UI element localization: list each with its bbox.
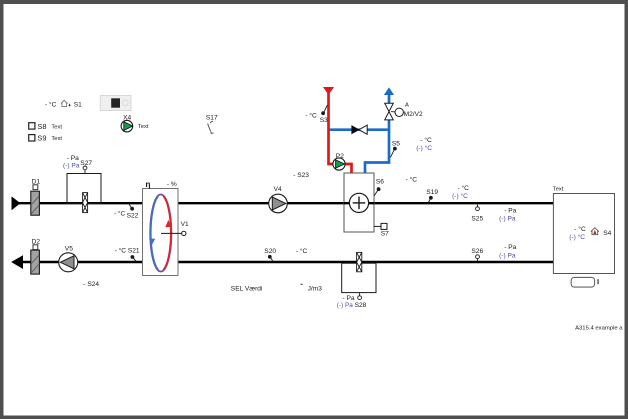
valve M2/V2 [385,103,423,120]
sensor S27 [63,155,92,174]
button X4 [121,114,149,131]
sensor S28 [337,293,367,309]
sensor S21 [115,247,140,262]
svg-text:SEL Værdi: SEL Værdi [231,286,263,293]
damper D1 [31,178,41,215]
heat recovery wheel rotor [149,195,171,272]
room sensor S4 [569,225,611,241]
svg-text:Text: Text [51,124,62,130]
svg-text:- °C S21: - °C S21 [115,247,140,255]
wire: water return pipe (blue) [365,87,394,173]
svg-text:- °C: - °C [420,136,432,144]
svg-text:η: η [145,179,150,189]
svg-text:S7: S7 [381,231,389,238]
svg-text:S27: S27 [80,160,92,167]
svg-text:S9: S9 [37,134,46,143]
svg-text:M2/V2: M2/V2 [404,111,423,118]
sensor S3 [305,105,328,124]
svg-text:V1: V1 [181,221,189,228]
svg-text:(-) Pa: (-) Pa [499,216,516,223]
svg-text:S19: S19 [426,189,438,196]
svg-text:(-) °C: (-) °C [569,233,585,241]
svg-text:- °C: - °C [305,112,317,120]
svg-text:Text: Text [553,186,564,192]
svg-text:- °C: - °C [574,225,586,233]
svg-text:S8: S8 [37,122,46,131]
sensor S5 [390,141,400,158]
svg-text:S17: S17 [206,115,218,122]
exhaust air outlet arrow [11,255,23,269]
sensor S20 [264,248,276,261]
heating coil box [344,173,374,232]
pump P2 [333,153,345,170]
svg-text:- %: - % [167,181,177,188]
svg-text:- S24: - S24 [83,281,99,288]
svg-text:S1: S1 [74,102,82,109]
svg-text:S3: S3 [320,117,328,124]
label temperature above supply duct [406,176,418,184]
svg-text:(-) °C: (-) °C [452,192,468,200]
svg-text:S25: S25 [471,215,483,222]
label drawing number [575,326,623,332]
svg-text:- °C: - °C [296,247,308,255]
heat recovery wheel box [143,179,179,276]
wire: supply air duct (top) [17,202,554,204]
label pressure pair supply [499,207,517,222]
checkbox S9 [29,134,63,143]
sensor S25 [471,204,483,222]
svg-text:- Pa: - Pa [504,244,516,251]
sensor S19 [426,189,438,202]
svg-text:- Pa: - Pa [343,295,355,302]
filter F1 element [83,193,88,213]
sensor S22 [114,204,139,220]
label S24 [83,281,99,288]
svg-text:S28: S28 [355,302,367,309]
wire: bypass link (blue) [330,128,388,131]
svg-text:- °C: - °C [45,101,57,109]
svg-text:- °C: - °C [114,210,125,218]
sensor S6 [374,179,384,196]
svg-text:A: A [405,103,409,109]
svg-text:J/m3: J/m3 [308,286,323,293]
label J/m3 [300,284,322,293]
label temperature bottom duct [296,247,308,255]
legend toggle widget [100,96,131,111]
filter F2 box on extract duct [342,263,376,292]
svg-text:S4: S4 [603,230,611,237]
svg-text:(-) Pa: (-) Pa [499,252,516,259]
supply air inlet arrow [12,196,21,210]
wire: hot water supply pipe (red) [323,87,352,174]
svg-text:- S23: - S23 [293,172,309,179]
svg-text:S20: S20 [264,248,276,255]
room box [553,186,615,273]
svg-text:V5: V5 [65,246,73,253]
svg-text:Text: Text [138,124,149,130]
wire: extract air duct (bottom) [17,261,554,263]
label S23 [293,172,309,179]
svg-text:S5: S5 [392,141,400,148]
damper D2 [31,239,41,275]
fan V4 [269,186,288,213]
sensor S7 [374,223,389,237]
svg-text:(-) °C: (-) °C [416,144,432,152]
svg-text:S26: S26 [471,248,483,255]
filter F1 box on supply duct [67,174,101,204]
label SEL Vaerdi [231,286,263,293]
legend sensor S1 [45,100,82,108]
svg-text:- °C: - °C [406,176,418,184]
actuator V1 [161,221,189,236]
svg-text:Text: Text [51,136,62,142]
checkbox S8 [29,122,63,131]
label pressure pair extract [499,244,517,259]
svg-text:S22: S22 [127,213,139,220]
filter F2 element [357,252,362,271]
svg-text:S6: S6 [376,179,384,186]
svg-text:- Pa: - Pa [67,155,79,162]
label temperatures near valve [416,136,432,152]
svg-text:(-) Pa: (-) Pa [337,302,353,309]
svg-text:- Pa: - Pa [504,207,516,214]
svg-text:A315.4 example a: A315.4 example a [575,326,623,332]
svg-text:(-) Pa: (-) Pa [63,163,80,170]
label temperatures right of S19 [452,184,469,200]
sensor S26 [471,248,483,261]
switch S17 [206,115,218,134]
check valve [351,125,367,134]
fan V5 [59,246,78,272]
input button below room box [571,277,599,287]
svg-text:V4: V4 [274,186,282,193]
svg-text:- °C: - °C [458,184,470,192]
